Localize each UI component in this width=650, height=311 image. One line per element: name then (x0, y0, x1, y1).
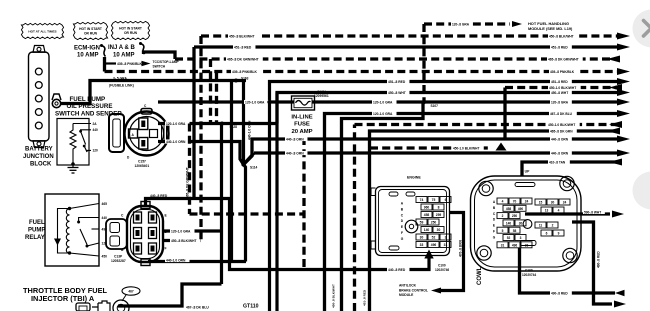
svg-text:450: 450 (102, 255, 108, 259)
svg-text:451-.8 RED: 451-.8 RED (551, 45, 568, 49)
label 439-.8 PNK/BLK left (231, 69, 262, 73)
wire 440-1.0 ORN (relay bottom) (148, 260, 246, 263)
svg-text:S114: S114 (250, 166, 257, 170)
svg-text:SWITCH: SWITCH (153, 65, 166, 69)
wire cowl right down (572, 222, 612, 304)
svg-text:ANTILOCK: ANTILOCK (399, 284, 417, 288)
svg-text:10 AMP: 10 AMP (77, 53, 98, 59)
svg-text:S107: S107 (431, 104, 439, 108)
svg-text:33: 33 (420, 243, 424, 247)
svg-text:70: 70 (513, 200, 517, 204)
svg-text:120-1.0 GRA: 120-1.0 GRA (373, 100, 393, 104)
label 450-.8 BLK/WHT left (228, 34, 259, 38)
svg-text:30: 30 (519, 222, 523, 226)
svg-text:960: 960 (424, 206, 430, 210)
relay diode branch (58, 209, 70, 254)
wire row 467-.8 DK BLU (y113.5) (325, 114, 618, 311)
label 410-.8 TAN right (548, 160, 570, 164)
svg-text:440-.8 ORN: 440-.8 ORN (286, 137, 304, 141)
svg-text:140: 140 (506, 222, 512, 226)
svg-text:450-.8 BLK/WHT: 450-.8 BLK/WHT (332, 284, 336, 308)
wire row 120 GRA (y102) (158, 100, 617, 103)
svg-text:52: 52 (432, 236, 436, 240)
label 120-1.0 GRA (right of fuse) (372, 100, 397, 104)
svg-text:451-.8 RED: 451-.8 RED (551, 80, 568, 84)
label 440-.8 ORN right (y153) (550, 151, 572, 155)
svg-text:439-.8 PNK/BLK: 439-.8 PNK/BLK (232, 70, 258, 74)
power label HOT IN START OR RUN (left) (73, 22, 107, 39)
svg-text:12020746: 12020746 (435, 268, 449, 272)
wire vert x277 (275, 93, 278, 311)
arrow up (y148) (496, 143, 507, 151)
label 120-.8 GRA (top) (451, 22, 473, 26)
wire row 450-.8 WHT (y92.5) (277, 93, 617, 124)
label 450-1.0 BLK/WHT mid (452, 146, 484, 150)
svg-text:440-1.0 ORN: 440-1.0 ORN (166, 140, 186, 144)
svg-text:OR RUN: OR RUN (124, 31, 138, 35)
svg-text:UP: UP (525, 170, 530, 174)
arrow into engine connector (424, 250, 433, 259)
label 590-.8 WHT (583, 210, 605, 214)
svg-text:440: 440 (93, 128, 99, 132)
wire fusible link down to S114 (242, 81, 245, 165)
svg-text:451-.8 RED: 451-.8 RED (388, 80, 406, 84)
label 465-.8 DK GRN right (549, 129, 577, 133)
label 450-1.0 BLK/WHT right (y124.5) (547, 122, 580, 126)
svg-text:HOT AT ALL TIMES: HOT AT ALL TIMES (28, 30, 56, 34)
svg-text:465-.8 DK GRN/WHT: 465-.8 DK GRN/WHT (548, 57, 579, 61)
wire vert 450 BLK/WHT (x201) (199, 36, 202, 241)
wire 450-.8 BLK/WHT (relay) (163, 239, 201, 242)
battery junction block (29, 46, 50, 148)
in-line fuse 20A (292, 96, 315, 110)
svg-text:465-.8 DK GRN/WHT: 465-.8 DK GRN/WHT (186, 167, 190, 198)
svg-text:G: G (401, 237, 404, 241)
svg-text:31: 31 (444, 243, 448, 247)
svg-text:3-.5 GRA: 3-.5 GRA (113, 76, 128, 80)
svg-text:440-.8 ORN: 440-.8 ORN (286, 151, 304, 155)
node junction x269.5 on GRA row (267, 100, 271, 104)
wire S114 branch to 440 ORN row2 (244, 153, 255, 165)
svg-text:410-.8 TAN: 410-.8 TAN (549, 160, 566, 164)
label 450-.8 BLK/WHT right (548, 34, 578, 38)
label 440-.8 ORN left (y153) (285, 151, 307, 155)
svg-text:S163: S163 (241, 77, 249, 81)
svg-text:590-.8 WHT: 590-.8 WHT (584, 210, 601, 214)
svg-text:458: 458 (506, 207, 512, 211)
svg-text:490-.8 RED: 490-.8 RED (597, 251, 601, 268)
svg-text:458: 458 (424, 213, 430, 217)
power label HOT IN START OR RUN (right) (111, 21, 149, 39)
wire 120-1.0 GRA (pressure to S128) (158, 122, 277, 125)
svg-text:JUNCTION: JUNCTION (23, 154, 54, 160)
label 451-.8 RED right2 (550, 80, 572, 84)
label 440-1.0 ORN (165, 139, 190, 143)
relay switch (77, 221, 80, 224)
wire row 450-1.0 BLK/WHT (y124.5) (353, 125, 356, 311)
connector C157 (round) (125, 109, 170, 156)
svg-text:31: 31 (501, 243, 505, 247)
svg-text:496: 496 (512, 243, 518, 247)
relay coil (66, 209, 69, 254)
svg-text:75: 75 (432, 198, 436, 202)
svg-text:20 AMP: 20 AMP (291, 129, 312, 135)
svg-text:5: 5 (502, 229, 504, 233)
svg-text:440-.8 ORN: 440-.8 ORN (551, 151, 569, 155)
svg-text:6: 6 (445, 198, 447, 202)
svg-text:FUEL PUMP: FUEL PUMP (70, 96, 106, 103)
wire vert 465 DK GRN/WHT (x210.5) (209, 59, 212, 124)
connector body (pressure) (109, 114, 124, 152)
svg-text:440-.8 RED: 440-.8 RED (150, 194, 168, 198)
svg-text:12020744: 12020744 (522, 273, 536, 277)
svg-text:4: 4 (558, 209, 560, 213)
svg-text:COWL: COWL (477, 266, 483, 285)
svg-text:2: 2 (552, 224, 554, 228)
sender resistor (70, 124, 76, 155)
svg-text:4: 4 (502, 200, 504, 204)
svg-text:450-.8 BLK/WHT: 450-.8 BLK/WHT (549, 34, 574, 38)
svg-text:450-.8 WHT: 450-.8 WHT (388, 91, 406, 95)
svg-text:30: 30 (551, 201, 555, 205)
svg-text:450-1.0 BLK/WHT: 450-1.0 BLK/WHT (549, 86, 576, 90)
ui next button (633, 172, 650, 210)
svg-text:30: 30 (437, 228, 441, 232)
wire 120-1.0 GRA (relay to S128) (163, 229, 222, 232)
svg-text:74: 74 (420, 198, 424, 202)
svg-text:3: 3 (445, 236, 447, 240)
svg-text:490-.8 RED: 490-.8 RED (551, 291, 568, 295)
svg-text:9: 9 (558, 232, 560, 236)
svg-text:24: 24 (525, 200, 529, 204)
wire S114 down (244, 165, 246, 262)
wire 490-.8 RED (cowl bottom) (520, 248, 616, 293)
label 120-1.0 GRA (165, 121, 190, 125)
wire 440-1.0 ORN (pressure) (158, 142, 244, 165)
svg-text:120-.8 GRA: 120-.8 GRA (551, 100, 569, 104)
label 440-.8 ORN right (y139) (550, 137, 572, 141)
node S128 (220, 122, 224, 126)
node S114 (241, 162, 245, 166)
label 451-.8 RED left (233, 45, 255, 49)
svg-text:250: 250 (431, 221, 437, 225)
svg-text:12065401: 12065401 (135, 164, 150, 168)
label 440-.8 RED (abs) (387, 267, 409, 271)
svg-text:12052287: 12052287 (111, 259, 126, 263)
wire injector 467-.8 DK BLU (118, 284, 222, 306)
wire row 450-1.0 BLK/WHT (y87.5) (503, 88, 506, 141)
svg-text:OR RUN: OR RUN (84, 32, 98, 36)
fuse INJ A and B 10 AMP (108, 42, 145, 59)
label 120-.8 GRA right (550, 100, 572, 104)
label 450-.8 WHT mid (387, 90, 409, 94)
connector C100 cowl side (471, 176, 582, 271)
svg-text:450-1.0 BLK/WHT: 450-1.0 BLK/WHT (453, 146, 479, 150)
wire battery feed 3-.5 GRA fusible link (61, 81, 247, 104)
pressure switch/sender box (57, 119, 89, 166)
wire vert 439 PNK/BLK (x216.5) (215, 72, 218, 124)
svg-text:C100: C100 (438, 264, 446, 268)
svg-text:140: 140 (424, 228, 430, 232)
label 450-.8 BLK/WHT (relay) (170, 238, 201, 242)
svg-text:C13P: C13P (114, 255, 123, 259)
wire INJ A&B feed (144, 52, 176, 59)
label 465-.8 DK GRN/WHT right (547, 57, 583, 61)
label 440-.8 ORN left (y139) (285, 137, 307, 141)
wire 590-.8 WHT (525, 212, 610, 215)
wire row 450-.8 BLK/WHT (y36) (201, 34, 617, 37)
ground (sender) (68, 164, 79, 173)
relay internal nodes (68, 207, 71, 210)
wire row 440-.8 ORN (y153) (254, 151, 617, 154)
label 467-.8 DK BLU (injector) (185, 305, 214, 309)
svg-text:E: E (493, 224, 495, 228)
svg-text:467: 467 (128, 289, 134, 293)
svg-text:120-1.0 GRA: 120-1.0 GRA (373, 112, 393, 116)
svg-text:439-.8 PNK/BLK: 439-.8 PNK/BLK (550, 70, 575, 74)
label 120-1.0 GRA (relay) (170, 229, 195, 233)
svg-text:440: 440 (102, 216, 108, 220)
svg-text:470-.8 BRN: 470-.8 BRN (459, 239, 463, 257)
wire row 451-.8 RED (y47) (194, 45, 617, 48)
svg-text:13: 13 (545, 209, 549, 213)
svg-text:120-1.0 GRA: 120-1.0 GRA (171, 229, 191, 233)
svg-text:IN-LINE: IN-LINE (291, 114, 312, 120)
svg-text:440-.8 RED: 440-.8 RED (388, 268, 406, 272)
wire row 465-.8 DK GRN (y131) (370, 131, 621, 311)
label 490-.8 RED (550, 291, 572, 295)
wire to antilock brake module (437, 213, 464, 291)
svg-text:439-.8 PNK/BLK: 439-.8 PNK/BLK (117, 62, 143, 66)
label 120-1.0 GRA (left of fuse) (244, 100, 269, 104)
svg-text:15: 15 (539, 201, 543, 205)
svg-text:HOT IN START: HOT IN START (79, 27, 102, 31)
svg-text:2: 2 (502, 214, 504, 218)
svg-text:58: 58 (513, 229, 517, 233)
svg-text:FUSE: FUSE (294, 122, 310, 128)
fuse ECM-IGN 10 AMP (74, 44, 106, 59)
wire row 451-.8 RED (y81.5) (270, 82, 618, 102)
svg-text:120: 120 (93, 149, 99, 153)
svg-text:BRAKE CONTROL: BRAKE CONTROL (399, 288, 428, 292)
node S163 (234, 79, 238, 83)
svg-text:450-.8 BLK/WHT: 450-.8 BLK/WHT (229, 34, 254, 38)
svg-text:465-.8 DK GRN: 465-.8 DK GRN (550, 129, 573, 133)
svg-text:F: F (493, 230, 495, 234)
label 467-.8 DK BLU right (549, 112, 577, 116)
svg-text:440-1.0 ORN: 440-1.0 ORN (166, 258, 186, 262)
svg-text:59: 59 (420, 221, 424, 225)
wire 120-.8 GRA to fuel handling module (422, 24, 425, 102)
svg-text:465-.8 DK GRN/WHT: 465-.8 DK GRN/WHT (227, 57, 259, 61)
svg-text:450-.8 BLK/WHT: 450-.8 BLK/WHT (171, 239, 196, 243)
svg-text:RELAY: RELAY (25, 235, 45, 241)
svg-text:52: 52 (507, 236, 511, 240)
power label HOT AT ALL TIMES (21, 23, 63, 38)
svg-text:(FUSIBLE LINK): (FUSIBLE LINK) (109, 84, 134, 88)
svg-text:ENGINE: ENGINE (407, 176, 421, 180)
svg-text:24: 24 (563, 201, 567, 205)
label 440-1.0 ORN (relay) (165, 258, 190, 262)
svg-text:11: 11 (539, 224, 543, 228)
internal wires pressure box (72, 123, 74, 126)
svg-text:BLOCK: BLOCK (30, 162, 52, 168)
wire row 439-.8 PNK/BLK (y71.5) (105, 70, 618, 73)
wire row 465-.8 DK GRN/WHT (y59) (175, 57, 620, 60)
node S107 (422, 100, 426, 104)
svg-text:450-1.0 BLK/WHT: 450-1.0 BLK/WHT (548, 123, 575, 127)
svg-text:12099561: 12099561 (314, 94, 329, 98)
svg-text:F: F (401, 231, 403, 235)
svg-text:GT110: GT110 (243, 304, 259, 310)
svg-text:250: 250 (512, 214, 518, 218)
svg-text:FUEL: FUEL (29, 220, 45, 226)
svg-text:440-1.0 ORN: 440-1.0 ORN (248, 120, 252, 140)
svg-text:8: 8 (438, 206, 440, 210)
wire S114 branch to 440 ORN row1 (244, 139, 257, 165)
svg-text:465: 465 (102, 202, 108, 206)
svg-text:ECM-IGN: ECM-IGN (74, 46, 100, 52)
svg-text:PUMP: PUMP (28, 228, 45, 234)
label 439-.8 PNK/BLK right (549, 70, 579, 74)
svg-text:3: 3 (520, 236, 522, 240)
label 120-1.0 GRA (mid y113.5) (372, 111, 397, 115)
wire S163 down to ORN wire (230, 81, 233, 262)
ui close button (633, 10, 650, 48)
svg-text:6: 6 (546, 232, 548, 236)
svg-text:INJ A & B: INJ A & B (108, 45, 136, 51)
arrow to TCC/STOP-LAMP SWITCH (142, 61, 151, 67)
injector assembly (76, 300, 129, 311)
svg-text:MODULE: MODULE (399, 293, 414, 297)
svg-text:INJECTOR (TBI) A: INJECTOR (TBI) A (31, 294, 95, 303)
svg-text:MODULE (SEE MD. L19): MODULE (SEE MD. L19) (528, 26, 573, 31)
wire ECM-IGN feed (439 PNK/BLK) (103, 57, 106, 72)
label 450-.8 WHT right (550, 91, 572, 95)
svg-text:451-.8 RED: 451-.8 RED (234, 45, 252, 49)
wire stub to stoplamp switch (105, 62, 117, 64)
wire row 410-.8 TAN (y162) (522, 162, 622, 176)
svg-text:120-1.0 GRA: 120-1.0 GRA (245, 100, 265, 104)
svg-text:490: 490 (518, 207, 524, 211)
svg-text:30: 30 (420, 236, 424, 240)
connector body (relay) (106, 219, 127, 249)
wire row 440-.8 ORN (y139) (256, 137, 617, 140)
svg-text:10 AMP: 10 AMP (113, 53, 134, 59)
svg-text:467-.8 DK BLU: 467-.8 DK BLU (550, 112, 573, 116)
svg-text:467-.8 DK BLU: 467-.8 DK BLU (186, 305, 209, 309)
label 450-1.0 BLK/WHT right (y87.5) (548, 85, 581, 89)
svg-text:259: 259 (436, 213, 442, 217)
wire vert 451 RED (x194) (192, 47, 195, 199)
callout 467 oval (122, 287, 140, 295)
wire vert dashed x304 (302, 137, 305, 270)
relay coil feed wires (70, 204, 100, 209)
svg-text:F: F (165, 247, 167, 251)
svg-text:HOT IN START: HOT IN START (119, 26, 142, 30)
relay box (45, 194, 99, 266)
wire row 450-1.0 BLK/WHT (y148 mid) (370, 146, 492, 149)
svg-text:2A: 2A (93, 122, 98, 126)
svg-text:496: 496 (431, 243, 437, 247)
label 451-.8 RED right (550, 45, 572, 49)
connector C13P (relay oval) (127, 202, 163, 266)
connector C100 engine side (371, 187, 451, 256)
svg-text:450-.8 WHT: 450-.8 WHT (551, 91, 568, 95)
wire dashed row y214 (190, 212, 305, 215)
svg-text:120-.8 GRA: 120-.8 GRA (452, 22, 470, 26)
label 465-.8 DK GRN/WHT left (226, 57, 263, 61)
svg-text:OIL PRESSURE: OIL PRESSURE (67, 103, 113, 110)
wire 440-.8 RED (relay) (146, 199, 430, 270)
label 451-.8 RED mid (387, 79, 409, 83)
ring terminal (fusible link) (52, 94, 61, 108)
svg-text:BATTERY: BATTERY (25, 147, 53, 153)
svg-text:440-.8 ORN: 440-.8 ORN (551, 137, 569, 141)
wire vert x269.5 (268, 102, 271, 311)
svg-text:C100: C100 (525, 269, 533, 273)
wire row 120-1.0 GRA (y118.5) (342, 102, 424, 311)
svg-text:120-1.0 GRA: 120-1.0 GRA (166, 122, 186, 126)
svg-text:451-.8 RED: 451-.8 RED (363, 289, 367, 306)
switch contact (79, 130, 82, 133)
wire vert dashed x189.5 (188, 124, 191, 215)
